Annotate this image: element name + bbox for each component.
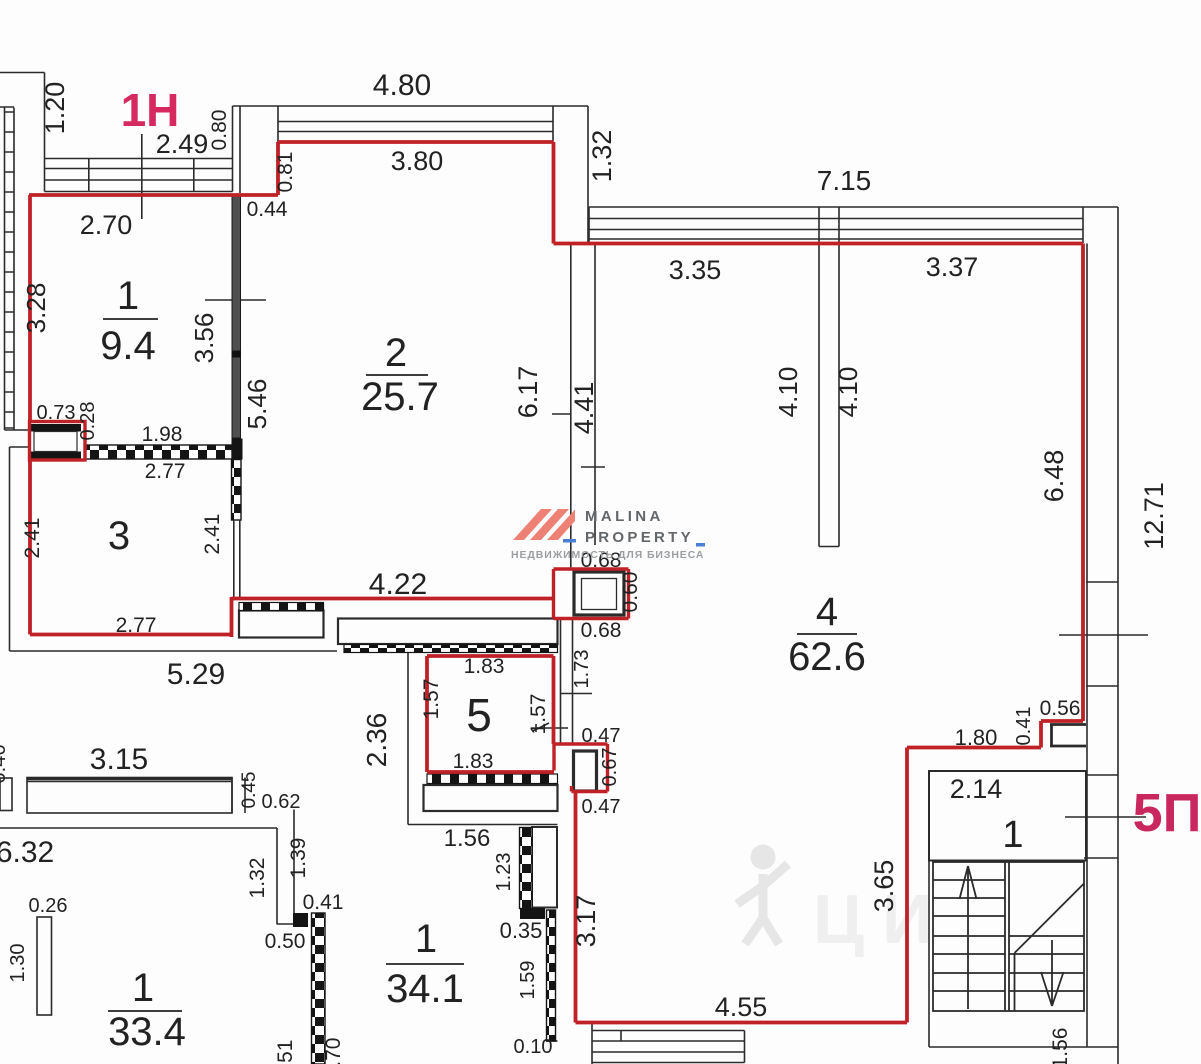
wall dbl room3 right lower bbox=[234, 520, 240, 597]
svg-text:2: 2 bbox=[385, 331, 407, 375]
svg-text:4.10: 4.10 bbox=[833, 367, 863, 418]
red shaftB bbox=[554, 744, 608, 792]
wire left outer wall bbox=[10, 447, 338, 651]
red shaftA bbox=[554, 569, 629, 619]
wall duct room3 outline bbox=[239, 611, 324, 638]
wall checker under band 4.22 bbox=[344, 645, 558, 653]
node room33 line bbox=[108, 1010, 182, 1012]
svg-text:1: 1 bbox=[415, 917, 437, 961]
svg-text:4.41: 4.41 bbox=[569, 382, 599, 435]
node room4 line bbox=[797, 633, 857, 635]
window W2 4.80 band bbox=[240, 106, 588, 243]
svg-text:1.98: 1.98 bbox=[142, 423, 183, 446]
svg-text:1.56: 1.56 bbox=[1049, 1028, 1072, 1064]
wall shaftB inner box bbox=[574, 751, 597, 791]
svg-text:4.22: 4.22 bbox=[369, 568, 427, 601]
svg-text:62.6: 62.6 bbox=[788, 635, 866, 679]
svg-text:MALINA: MALINA bbox=[585, 508, 664, 525]
wall checker duct top bbox=[239, 603, 324, 611]
wall shaft TL bands bbox=[30, 424, 81, 459]
wall right outer bbox=[1117, 207, 1119, 1064]
watermark person bbox=[737, 845, 788, 945]
svg-text:2.41: 2.41 bbox=[21, 518, 44, 559]
wall checker under room5 bbox=[427, 774, 558, 784]
red room3 left+bottom bbox=[30, 460, 232, 637]
svg-text:1.57: 1.57 bbox=[420, 679, 443, 720]
wire bottom line y1047 bbox=[929, 771, 1118, 1047]
wire right wall ticks bbox=[1059, 582, 1148, 858]
node room1 line bbox=[103, 318, 158, 320]
svg-text:0.46: 0.46 bbox=[0, 745, 10, 784]
svg-text:1.32: 1.32 bbox=[587, 130, 617, 183]
wall mid lower white band bbox=[532, 827, 557, 908]
wire top-left step bbox=[0, 73, 45, 159]
svg-text:0.10: 0.10 bbox=[514, 1036, 553, 1058]
svg-text:0.50: 0.50 bbox=[265, 930, 306, 953]
svg-text:1.73: 1.73 bbox=[571, 650, 593, 689]
svg-text:1.30: 1.30 bbox=[7, 944, 29, 983]
wall pilaster bbox=[37, 917, 52, 1015]
wire left ladder rails bbox=[0, 107, 14, 430]
svg-text:6.17: 6.17 bbox=[513, 366, 543, 419]
svg-text:1.56: 1.56 bbox=[444, 825, 491, 852]
red shaft TL bbox=[30, 422, 86, 461]
node room2 line bbox=[366, 374, 428, 376]
svg-text:5: 5 bbox=[466, 689, 492, 741]
svg-text:3.15: 3.15 bbox=[90, 743, 148, 776]
svg-text:1.23: 1.23 bbox=[493, 853, 515, 892]
svg-text:5.46: 5.46 bbox=[242, 379, 272, 430]
wall corridor left of room5 bbox=[408, 644, 558, 825]
wall checker mid vertical upper bbox=[520, 828, 533, 909]
svg-text:3: 3 bbox=[108, 514, 130, 558]
svg-text:0.68: 0.68 bbox=[581, 619, 622, 642]
svg-text:2.77: 2.77 bbox=[116, 614, 157, 637]
wall shaftA inner box bbox=[574, 572, 624, 615]
wall checker room3 right bbox=[232, 460, 242, 521]
svg-text:0.47: 0.47 bbox=[582, 796, 621, 818]
stair diagonal bbox=[1015, 884, 1085, 1012]
logo malina stripes bbox=[513, 509, 575, 540]
svg-text:0.45: 0.45 bbox=[239, 772, 260, 809]
svg-text:2.49: 2.49 bbox=[156, 129, 209, 159]
wire left ladder rungs bbox=[5, 112, 15, 428]
svg-text:1.39: 1.39 bbox=[287, 838, 310, 879]
svg-text:0.80: 0.80 bbox=[208, 110, 231, 151]
stair treads bbox=[933, 862, 1084, 1011]
svg-text:34.1: 34.1 bbox=[386, 967, 464, 1011]
wire tick room1 wall bbox=[205, 299, 266, 301]
wall stair hall bbox=[929, 771, 1086, 861]
svg-text:0.56: 0.56 bbox=[1040, 697, 1081, 720]
svg-text:4.10: 4.10 bbox=[773, 367, 803, 418]
svg-text:12.71: 12.71 bbox=[1139, 482, 1169, 550]
svg-text:4.80: 4.80 bbox=[373, 69, 431, 102]
svg-text:0.26: 0.26 bbox=[29, 895, 68, 917]
svg-text:3.65: 3.65 bbox=[869, 860, 899, 913]
svg-text:1.20: 1.20 bbox=[40, 82, 70, 135]
wall black block mid bbox=[520, 908, 545, 919]
wire jamb 0.80 bbox=[233, 106, 241, 159]
svg-text:1.83: 1.83 bbox=[453, 750, 494, 773]
svg-text:1.83: 1.83 bbox=[464, 655, 505, 678]
svg-text:0.62: 0.62 bbox=[262, 791, 301, 813]
stair arrow down bbox=[1041, 940, 1064, 1006]
svg-text:0.28: 0.28 bbox=[77, 402, 99, 441]
svg-text:4.55: 4.55 bbox=[715, 992, 768, 1022]
wire ticks between shafts bbox=[533, 619, 592, 744]
svg-text:5.29: 5.29 bbox=[167, 658, 225, 691]
svg-text:НЕДВИЖИМОСТЬ ДЛЯ БИЗНЕСА: НЕДВИЖИМОСТЬ ДЛЯ БИЗНЕСА bbox=[511, 549, 704, 561]
wire tick y430 bbox=[5, 429, 31, 431]
wall checker mid vertical lower bbox=[547, 910, 556, 1041]
red unit right side bbox=[576, 244, 1084, 1023]
svg-text:3.35: 3.35 bbox=[669, 255, 722, 285]
wire 5P leader bbox=[1065, 816, 1146, 818]
logo blue marks bbox=[563, 539, 576, 543]
svg-text:0.41: 0.41 bbox=[1013, 707, 1035, 746]
red 4.22 line bbox=[232, 597, 554, 601]
svg-text:25.7: 25.7 bbox=[361, 375, 439, 419]
wall window bottom band bbox=[592, 1023, 745, 1064]
wall black corner block 0.41 bbox=[293, 913, 308, 927]
svg-text:0.67: 0.67 bbox=[599, 748, 621, 787]
wire ext line x141.8 bbox=[141, 134, 143, 219]
svg-text:3.80: 3.80 bbox=[391, 146, 444, 176]
wall checker 1.98 room1 bottom bbox=[85, 445, 232, 459]
svg-text:1: 1 bbox=[117, 274, 139, 318]
svg-text:0.44: 0.44 bbox=[247, 198, 288, 221]
svg-text:2.14: 2.14 bbox=[950, 774, 1003, 804]
wall niche 0.56 bbox=[1050, 725, 1086, 747]
svg-text:3.37: 3.37 bbox=[926, 252, 979, 282]
wall band under room5 bbox=[424, 785, 558, 811]
svg-text:0.47: 0.47 bbox=[582, 725, 621, 747]
node room34 line bbox=[386, 963, 464, 965]
wall x1087 bbox=[1086, 244, 1088, 1048]
svg-text:PROPERTY: PROPERTY bbox=[585, 529, 694, 546]
svg-text:0.51: 0.51 bbox=[274, 1040, 297, 1064]
window W3 7.15 band bbox=[589, 207, 1118, 243]
red unit 1H outline top bbox=[29, 142, 1083, 1023]
svg-text:5П: 5П bbox=[1133, 783, 1201, 843]
svg-text:1: 1 bbox=[1002, 814, 1023, 856]
svg-text:6.32: 6.32 bbox=[0, 836, 54, 869]
red room1 left wall bbox=[28, 195, 32, 422]
svg-text:9.4: 9.4 bbox=[100, 324, 156, 368]
wall small left rect bbox=[0, 778, 12, 811]
svg-text:1.57: 1.57 bbox=[527, 694, 550, 735]
wall bottom-left room top bbox=[0, 810, 305, 925]
svg-text:3.56: 3.56 bbox=[189, 313, 219, 364]
wall mullion 4.10 bbox=[819, 207, 839, 547]
svg-text:0.41: 0.41 bbox=[303, 891, 344, 914]
wall checker bottom-left vertical bbox=[312, 913, 326, 1064]
svg-text:1.59: 1.59 bbox=[517, 961, 539, 1000]
svg-text:4: 4 bbox=[816, 590, 838, 634]
svg-text:6.48: 6.48 bbox=[1039, 450, 1069, 503]
wire corridor lines 6.17/4.41 bbox=[552, 245, 605, 568]
svg-text:33.4: 33.4 bbox=[108, 1010, 186, 1054]
svg-text:1.32: 1.32 bbox=[246, 858, 269, 899]
svg-text:3.17: 3.17 bbox=[571, 895, 601, 948]
svg-text:2.70: 2.70 bbox=[80, 210, 133, 240]
svg-text:0.81: 0.81 bbox=[274, 152, 297, 193]
svg-text:1.70: 1.70 bbox=[322, 1038, 345, 1064]
wall gray bar room1 right bbox=[232, 196, 243, 460]
red room5 bbox=[427, 656, 554, 772]
window 3.15 band bbox=[27, 778, 232, 814]
logo malina text bbox=[511, 508, 704, 561]
svg-text:1: 1 bbox=[132, 966, 154, 1010]
svg-text:2.77: 2.77 bbox=[145, 460, 186, 483]
svg-text:2.41: 2.41 bbox=[201, 514, 224, 555]
svg-text:3.28: 3.28 bbox=[21, 283, 51, 334]
svg-text:0.35: 0.35 bbox=[500, 918, 543, 943]
svg-text:0.73: 0.73 bbox=[37, 402, 76, 424]
svg-text:7.15: 7.15 bbox=[817, 165, 872, 196]
svg-text:1.80: 1.80 bbox=[955, 725, 998, 750]
stair arrow up bbox=[960, 866, 977, 1009]
wall band under 4.22 bbox=[338, 619, 558, 645]
window W1 room1 top band bbox=[45, 159, 233, 192]
svg-text:0.60: 0.60 bbox=[619, 572, 642, 613]
svg-text:2.36: 2.36 bbox=[361, 713, 392, 768]
